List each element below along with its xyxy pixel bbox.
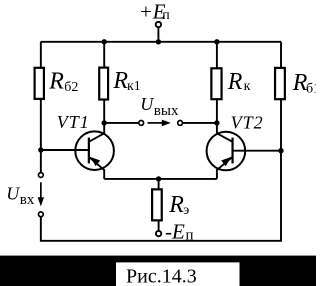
svg-text:-E: -E — [165, 220, 185, 244]
svg-text:R: R — [227, 69, 243, 95]
svg-text:Рис.14.3: Рис.14.3 — [126, 266, 197, 286]
svg-text:э: э — [183, 203, 189, 218]
svg-text:п: п — [162, 8, 170, 23]
svg-text:п: п — [186, 227, 194, 243]
svg-text:VT2: VT2 — [231, 113, 264, 133]
svg-text:к: к — [244, 79, 251, 94]
svg-text:к1: к1 — [127, 79, 141, 94]
svg-text:вых: вых — [154, 103, 179, 119]
svg-text:R: R — [48, 69, 64, 95]
svg-text:б1: б1 — [306, 81, 316, 96]
svg-text:VT1: VT1 — [57, 112, 90, 132]
svg-text:R: R — [168, 192, 184, 218]
svg-text:U: U — [140, 94, 154, 114]
svg-text:б2: б2 — [64, 80, 78, 95]
svg-text:R: R — [112, 68, 128, 94]
svg-text:вх: вх — [20, 192, 35, 208]
svg-text:U: U — [6, 184, 20, 204]
